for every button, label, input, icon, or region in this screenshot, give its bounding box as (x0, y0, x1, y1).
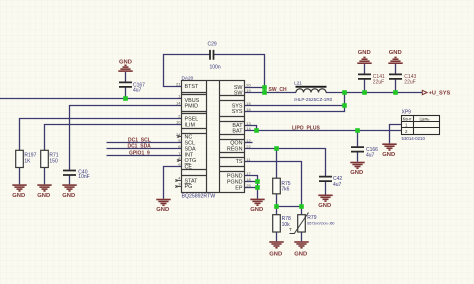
svg-text:BTST: BTST (185, 84, 199, 90)
capacitor C143 (389, 74, 416, 86)
wire R79 leads (301, 207, 303, 242)
svg-text:EP: EP (235, 185, 243, 191)
ground below R197 (12, 185, 26, 199)
wire TS divider node (277, 206, 302, 208)
wire XP9 pin1 to ground (390, 125, 402, 144)
capacitor C40 (63, 169, 90, 180)
svg-text:22uF: 22uF (404, 80, 415, 86)
svg-text:22: 22 (246, 144, 251, 149)
svg-text:TS: TS (236, 159, 243, 165)
wire R78 leads (276, 207, 278, 242)
wire PSEL net (20, 119, 182, 151)
junction node C143 (393, 90, 398, 95)
ground below XP9 pin1 (382, 144, 396, 158)
wire R75 bottom (276, 194, 278, 207)
capacitor C29 (208, 42, 221, 71)
junction node VBUS/C167 (123, 96, 128, 101)
svg-text:SYS: SYS (232, 109, 243, 115)
wire C167 leads (125, 72, 127, 99)
wire BAT pin14 LIPO_PLUS net (245, 130, 402, 132)
pin numbers right (246, 83, 251, 188)
svg-text:16: 16 (246, 107, 251, 112)
ground below R79 (294, 242, 308, 257)
svg-text:C29: C29 (208, 42, 217, 48)
svg-text:Конт: Конт (403, 117, 412, 122)
ground below PGND (250, 199, 264, 213)
wire PGND pin17 (245, 176, 258, 199)
connector XP9 (402, 109, 440, 141)
svg-text:GND: GND (37, 193, 50, 199)
svg-text:21: 21 (176, 81, 181, 86)
wire SCL net (107, 142, 182, 144)
svg-text:22uF: 22uF (373, 80, 384, 86)
svg-text:ILIM: ILIM (185, 122, 196, 128)
svg-text:GND: GND (250, 207, 263, 213)
svg-text:GND: GND (119, 60, 132, 66)
svg-text:SW_CH: SW_CH (269, 87, 287, 93)
pin names right column (227, 85, 243, 191)
wire C141 leads (364, 64, 366, 93)
wire R71 bottom lead (44, 168, 46, 185)
wire C166 lead (357, 131, 359, 147)
junction node R75/R78 (274, 204, 279, 209)
svg-text:GPIO1_9: GPIO1_9 (129, 151, 150, 157)
svg-text:DC1_SDA: DC1_SDA (127, 144, 151, 150)
svg-text:GND: GND (294, 251, 307, 257)
junction node EP (255, 185, 260, 190)
junction node SYS (342, 103, 347, 108)
no-connect stubs NC OTG STAT PG (175, 135, 181, 187)
resistor R78 (273, 215, 291, 232)
svg-text:GND: GND (156, 207, 169, 213)
wire R197 bottom lead (19, 168, 21, 185)
svg-text:GND: GND (12, 193, 25, 199)
svg-text:LIPO_PLUS: LIPO_PLUS (292, 125, 320, 131)
svg-text:1K: 1K (24, 158, 31, 164)
wire SDA net (107, 148, 182, 150)
pin names left column (185, 84, 200, 190)
ground above C141 (357, 50, 371, 63)
svg-text:19: 19 (246, 88, 251, 93)
wire CE to ground (164, 167, 182, 199)
pin numbers left (176, 81, 181, 186)
svg-text:GND: GND (318, 203, 331, 209)
wire VBUS net (0, 98, 182, 100)
wire REGN to R75 (276, 149, 278, 179)
svg-text:14: 14 (176, 101, 181, 106)
svg-text:XP9: XP9 (402, 109, 412, 115)
junction node C141 (362, 90, 367, 95)
IC DA20 (182, 75, 245, 199)
junction node C166/LIPO (355, 128, 360, 133)
capacitor C141 (358, 74, 385, 86)
svg-text:53014-0210: 53014-0210 (402, 136, 426, 141)
junction node SW pin19 (262, 90, 267, 95)
svg-text:GND: GND (389, 50, 402, 56)
ground above C143 (388, 50, 402, 63)
svg-text:PG: PG (185, 184, 193, 190)
svg-text:7k6: 7k6 (281, 186, 289, 192)
ground below R78 (269, 242, 283, 257)
junction node REGN/R75 (274, 146, 279, 151)
capacitor C166 (351, 147, 378, 159)
svg-text:18: 18 (246, 177, 251, 182)
wire QON stub (245, 142, 253, 144)
svg-text:4u7: 4u7 (133, 87, 142, 93)
svg-text:PMID: PMID (185, 103, 199, 109)
junction node TS/R79 (299, 204, 304, 209)
resistor R71 (41, 150, 59, 167)
junction node BAT (254, 128, 259, 133)
wire SYS pin16 (245, 93, 345, 112)
svg-text:4u7: 4u7 (333, 182, 342, 188)
wire SW pin20 (245, 87, 265, 89)
svg-text:BQ25892RTW: BQ25892RTW (182, 194, 216, 200)
svg-text:SDA: SDA (185, 146, 196, 152)
wire SYS pin15 (245, 105, 345, 107)
wire ILIM net (45, 125, 182, 151)
wire C143 leads (395, 64, 397, 93)
wire EP pin25 (245, 187, 258, 189)
svg-text:14: 14 (246, 126, 251, 131)
svg-text:GND: GND (269, 251, 282, 257)
wire PGND pin18 (245, 181, 258, 183)
svg-text:GND: GND (358, 50, 371, 56)
svg-text:T: T (289, 227, 292, 232)
inductor L21 (294, 80, 333, 102)
svg-text:BAT: BAT (232, 128, 243, 134)
svg-text:25: 25 (246, 183, 251, 188)
svg-text:B573xxV2xxx-J60: B573xxV2xxx-J60 (307, 221, 334, 225)
svg-text:R79: R79 (307, 215, 316, 221)
wire BTST to C29 left (164, 55, 210, 87)
svg-text:Цепь: Цепь (420, 117, 431, 122)
ground below C166 (350, 163, 364, 177)
capacitor C167 (119, 82, 145, 93)
power port +U_SYS (422, 90, 450, 96)
svg-text:17: 17 (246, 171, 251, 176)
capacitor C42 (319, 176, 342, 188)
wire inductor to U_SYS (326, 92, 422, 94)
svg-text:GND: GND (350, 170, 363, 176)
svg-text:10: 10 (176, 120, 181, 125)
wire BAT pin13 (245, 126, 257, 131)
junction node SW pin20 (262, 85, 267, 90)
ground above C167 (118, 60, 132, 72)
svg-text:REGN: REGN (227, 146, 243, 152)
wire REGN to C42 (245, 149, 326, 177)
svg-text:12: 12 (246, 138, 251, 143)
svg-text:L21: L21 (294, 80, 302, 85)
svg-text:IHLP-2525CZ-1R0: IHLP-2525CZ-1R0 (294, 97, 332, 102)
svg-text:SW: SW (234, 90, 244, 96)
wire INT net (107, 155, 182, 157)
svg-text:DA20: DA20 (182, 75, 194, 80)
ground below CE wire (156, 200, 170, 214)
IC DA20 outline (182, 81, 245, 193)
ground below R71 (37, 185, 51, 199)
thermistor R79 (289, 213, 335, 234)
svg-text:GND: GND (62, 193, 75, 199)
svg-text:4u7: 4u7 (366, 152, 375, 158)
svg-text:100n: 100n (210, 65, 221, 71)
svg-text:GND: GND (382, 152, 395, 158)
wire C40 bottom lead (69, 175, 71, 184)
svg-text:OTG: OTG (185, 158, 197, 164)
resistor R197 (16, 150, 37, 167)
ground below C40 (62, 185, 76, 199)
svg-text:CE: CE (185, 164, 193, 170)
wire C166 bottom lead (357, 152, 359, 162)
junction node inductor out (342, 90, 347, 95)
svg-text:10nF: 10nF (78, 174, 89, 180)
junction node PGND18 (255, 179, 260, 184)
svg-text:150: 150 (49, 158, 58, 164)
wire C42 bottom lead (325, 182, 327, 195)
wire TS net (245, 162, 302, 207)
ground below C42 (318, 195, 332, 209)
wire PMID net (70, 106, 182, 171)
resistor R75 (273, 178, 291, 194)
svg-text:15: 15 (246, 101, 251, 106)
pin name overlines CE PG (185, 164, 191, 184)
wire C29 right to SW (214, 55, 265, 93)
wire SW pin19 to inductor (245, 92, 297, 94)
svg-text:+U_SYS: +U_SYS (429, 91, 451, 97)
